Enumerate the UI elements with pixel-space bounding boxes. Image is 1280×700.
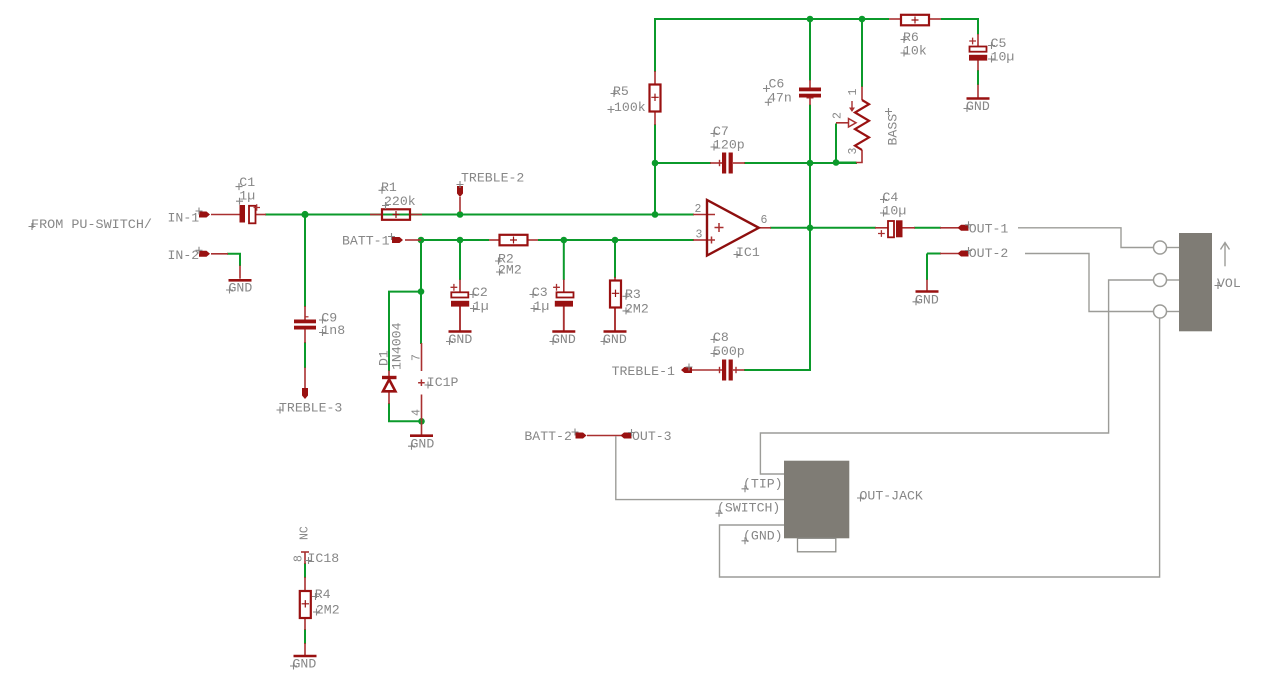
wire pin IC1P 7 [421, 343, 423, 371]
svg-text:2M2: 2M2 [625, 301, 649, 316]
svg-text:10µ: 10µ [883, 204, 907, 219]
ground GND under D1 [410, 434, 433, 437]
wire input node down to C9 [304, 215, 306, 308]
wire BATT-1 red [405, 239, 421, 241]
svg-text:IN-2: IN-2 [168, 248, 200, 263]
svg-text:GND: GND [552, 332, 576, 347]
svg-text:47n: 47n [768, 90, 792, 105]
wire R4 to GND [304, 629, 306, 644]
wire R5 to C7 node [654, 124, 656, 164]
wire IN-2 to GND [227, 254, 240, 266]
svg-text:500p: 500p [713, 344, 745, 359]
resistor R3 [610, 281, 621, 308]
svg-text:C3: C3 [532, 285, 548, 300]
svg-text:C2: C2 [472, 285, 488, 300]
wire C7 node down to opamp pin2 net [654, 163, 656, 216]
ground GND under R4 [294, 655, 317, 658]
wire pin C5 top [977, 34, 979, 47]
node feedback top C6 [807, 16, 814, 23]
net flag IN-2 [199, 251, 210, 257]
wire pin BASS wiper [836, 122, 849, 124]
wire pin IC1 2 [693, 214, 715, 216]
wire pin C9 top [304, 306, 306, 320]
wire to C3 [563, 240, 565, 280]
wire pin D1 bottom [388, 392, 390, 405]
svg-text:R1: R1 [381, 180, 397, 195]
wire OUT-2 stub [927, 253, 941, 255]
ground GND under IN-2 [229, 279, 252, 282]
wire top to BASS pin1 [861, 18, 863, 87]
wire pin R1 left [370, 214, 382, 216]
wire pin C4 right [902, 227, 915, 229]
connector pad VOL 2 [1154, 274, 1167, 287]
potentiometer BASS wiper arrow [849, 119, 857, 128]
svg-text:8: 8 [293, 555, 306, 562]
wire pin C3 top [563, 280, 565, 293]
node opamp output junction [807, 225, 814, 232]
wire top to R5 [654, 18, 656, 72]
wire D1 cathode to GND node [389, 403, 422, 421]
wire pin C8 left [689, 369, 722, 371]
wire pin tick C6 [807, 97, 814, 99]
svg-text:1µ: 1µ [473, 299, 489, 314]
wire pin C1 right [256, 214, 267, 216]
svg-text:220k: 220k [384, 194, 416, 209]
svg-text:(SWITCH): (SWITCH) [717, 501, 780, 516]
svg-text:BASS: BASS [886, 114, 901, 146]
wire pin R2 right [527, 239, 539, 241]
svg-text:TREBLE-2: TREBLE-2 [461, 171, 524, 186]
capacitor C4 [878, 220, 903, 237]
connector pad VOL 1 [1154, 241, 1167, 254]
net flag TREBLE-2 [457, 186, 463, 197]
svg-text:120p: 120p [713, 138, 745, 153]
wire pin IC1 3 [693, 239, 707, 241]
svg-text:OUT-1: OUT-1 [969, 221, 1009, 236]
svg-text:IC1: IC1 [736, 245, 760, 260]
svg-text:R5: R5 [613, 84, 629, 99]
svg-text:2: 2 [832, 112, 845, 119]
wire pin C2 top [459, 280, 461, 293]
wire top feedback horizontal [654, 18, 889, 20]
wire gray OUT-2 to VOL pin 3 [1025, 254, 1153, 312]
wire pin GND IN-2 [239, 266, 241, 279]
wire pin R4 bottom [304, 618, 306, 630]
wire to R3 [614, 240, 616, 278]
svg-text:OUT-2: OUT-2 [969, 246, 1009, 261]
wire C7 to pot node [744, 162, 857, 164]
node C3 junction [561, 237, 568, 244]
capacitor C6 [799, 88, 821, 98]
node D1 branch junction [418, 288, 425, 295]
wire pin R6 right [928, 18, 941, 20]
svg-text:1µ: 1µ [534, 299, 550, 314]
diode D1 [382, 378, 397, 392]
wire pin GND D1 [421, 421, 423, 434]
wire pin R3 gnd [614, 307, 616, 331]
svg-text:10k: 10k [903, 44, 927, 59]
svg-text:FROM PU-SWITCH/: FROM PU-SWITCH/ [31, 217, 152, 232]
op-amp IC1 [707, 200, 759, 256]
wire pin R6 left [889, 18, 901, 20]
wire pin D1 top [388, 371, 390, 378]
wire OUT-2 to GND [926, 254, 928, 281]
wire BASS wiper down [835, 124, 837, 164]
wire pin C9 bottom [304, 329, 306, 344]
svg-text:NC: NC [299, 526, 312, 540]
svg-text:2: 2 [695, 203, 702, 216]
wire gray VOL pin2 stub [1166, 279, 1179, 281]
net flag OUT-2 [958, 251, 969, 257]
wire pin C4 left [875, 227, 888, 229]
svg-text:TREBLE-1: TREBLE-1 [612, 364, 675, 379]
svg-text:2M2: 2M2 [316, 603, 340, 618]
svg-text:(TIP): (TIP) [743, 476, 783, 491]
net flag TREBLE-1 [681, 367, 692, 373]
svg-text:GND: GND [966, 99, 990, 114]
node C2 junction [457, 237, 464, 244]
svg-text:(GND): (GND) [743, 528, 783, 543]
wire pin R2 left [489, 239, 500, 241]
wire pin tick C9 [305, 316, 309, 318]
wire pin tick C8 right [735, 367, 737, 373]
wire to C2 [459, 240, 461, 280]
net flag TREBLE-3 [302, 388, 308, 399]
wire pin IC18 nc cross [301, 551, 309, 553]
node R3 junction [612, 237, 619, 244]
net flag OUT-1 [958, 225, 969, 231]
ground GND under R3 [604, 330, 627, 333]
svg-text:GND: GND [229, 281, 253, 296]
wire D1 branch horizontal [388, 291, 422, 293]
svg-text:4: 4 [411, 409, 424, 416]
wire pin R3 top [614, 277, 616, 281]
node IC1P pin4 GND junction [418, 418, 425, 425]
wire pin BASS 1 [861, 87, 863, 101]
svg-text:6: 6 [761, 214, 768, 227]
wire OUT-2 red [940, 253, 959, 255]
potentiometer VOL arrow [1221, 243, 1230, 267]
ground GND under C3 [552, 330, 575, 333]
wire pin R1 right [410, 214, 422, 216]
node R5/C7 junction [652, 160, 659, 167]
node TREBLE-2 junction [457, 211, 464, 218]
potentiometer BASS adjust arrow [849, 101, 855, 112]
op-amp power IC1P [418, 379, 425, 386]
wire pin C6 top [809, 80, 811, 88]
svg-text:TREBLE-3: TREBLE-3 [279, 401, 342, 416]
capacitor C3 [553, 284, 573, 307]
wire pin C7 right [733, 162, 745, 164]
connector pad VOL 3 [1154, 305, 1167, 318]
wire pin R4 top [304, 577, 306, 591]
svg-text:IC18: IC18 [308, 551, 340, 566]
svg-text:C6: C6 [769, 77, 785, 92]
wire BATT-1 node to R2 [420, 239, 489, 241]
wire C6 bottom through output node to C8 [744, 105, 810, 371]
wire C5 to GND [977, 70, 979, 85]
svg-text:VOL: VOL [1217, 276, 1241, 291]
wire pin IC1 6 [759, 227, 771, 229]
potentiometer VOL body [1179, 233, 1212, 331]
potentiometer BASS [855, 100, 869, 150]
wire pin C3 gnd [563, 307, 565, 331]
wire TREBLE-3 stub [304, 368, 306, 390]
wire pin C5 bottom [977, 60, 979, 71]
resistor R4 [300, 591, 311, 618]
wire gray OUT-1 to VOL pin 1 [1018, 228, 1153, 248]
wire gray VOL pin1 stub [1166, 247, 1179, 249]
svg-text:3: 3 [696, 229, 703, 242]
wire IN-2 red [211, 253, 228, 255]
wire pin C5 gnd [977, 85, 979, 98]
wire pin C8 right [733, 369, 745, 371]
wire opamp output [770, 227, 876, 229]
svg-text:BATT-1: BATT-1 [342, 234, 390, 249]
resistor R5 [650, 85, 661, 112]
capacitor C5 [969, 38, 987, 61]
svg-text:10µ: 10µ [991, 50, 1015, 65]
net flag IN-1 [199, 212, 210, 218]
svg-text:GND: GND [449, 332, 473, 347]
wire pin tick C7 [719, 160, 721, 166]
wire BASS pin3 to node [836, 162, 857, 164]
wire IN-1 to C1 [211, 214, 240, 216]
wire pin IC1P 4 [421, 395, 423, 422]
wire pin C7 left [710, 162, 722, 164]
svg-text:R4: R4 [315, 587, 331, 602]
wire pin C6 bottom [809, 98, 811, 106]
wire BATT node down to IC1P pin7 [420, 240, 422, 344]
wire pin IC18 8 [304, 552, 306, 564]
node input junction C1/C9 [301, 211, 308, 218]
svg-text:C8: C8 [713, 330, 729, 345]
net flag BATT-2 [576, 433, 587, 439]
svg-text:BATT-2: BATT-2 [524, 429, 571, 444]
capacitor C9 [294, 320, 316, 330]
ground GND under C5 [967, 97, 990, 100]
wire C4 to OUT-1 [914, 227, 941, 229]
wire BATT-2 to OUT-3 [587, 435, 623, 437]
svg-text:2M2: 2M2 [498, 263, 522, 278]
svg-text:GND: GND [411, 437, 435, 452]
resistor R6 [901, 15, 929, 25]
svg-text:1n8: 1n8 [321, 323, 345, 338]
net flag BATT-1 [392, 237, 403, 243]
svg-text:GND: GND [915, 292, 939, 307]
wire gray VOL pin3 stub [1166, 311, 1179, 313]
node BATT-1 junction [418, 237, 425, 244]
wire pin R5 bottom [654, 113, 656, 126]
wire TREBLE-2 stub [459, 197, 461, 212]
capacitor C2 [451, 284, 470, 307]
wire pin R5 top [654, 71, 656, 85]
ground GND under OUT-2 [916, 290, 939, 293]
svg-text:GND: GND [603, 332, 627, 347]
wire pin GND R4 [304, 643, 306, 656]
svg-text:7: 7 [411, 354, 424, 361]
svg-text:IN-1: IN-1 [168, 210, 200, 225]
svg-text:OUT-JACK: OUT-JACK [860, 489, 923, 504]
svg-text:100k: 100k [614, 100, 646, 115]
node C6/C7 junction [807, 160, 814, 167]
capacitor C1 [240, 204, 261, 223]
wire C6 top [809, 18, 811, 81]
ground GND under C2 [449, 330, 472, 333]
wire pin C2 gnd [459, 307, 461, 331]
capacitor C7 [722, 153, 733, 174]
wire main input net horizontal [265, 214, 694, 216]
svg-text:OUT-3: OUT-3 [632, 429, 672, 444]
wire C7 node left [655, 162, 711, 164]
wire D1 anode branch down [388, 292, 390, 371]
wire pin BASS 3 [856, 150, 862, 163]
resistor R1 [382, 209, 410, 220]
net flag OUT-3 [621, 433, 632, 439]
svg-text:1: 1 [847, 89, 860, 96]
wire R6 to C5 [941, 19, 978, 35]
connector OUT-JACK sleeve tab [798, 538, 836, 552]
wire gray jack GND loop to VOL pin 3 [720, 318, 1160, 577]
svg-text:IC1P: IC1P [427, 375, 459, 390]
wire pin GND OUT-2 [926, 280, 928, 291]
resistor R2 [500, 235, 528, 246]
node feedback top BASS [859, 16, 866, 23]
node opamp pin2 junction [652, 211, 659, 218]
svg-text:GND: GND [293, 657, 317, 672]
svg-text:1N4004: 1N4004 [390, 322, 405, 370]
wire pin tick C8 left [719, 367, 721, 373]
wire C9 to TREBLE-3 [304, 342, 306, 368]
svg-text:3: 3 [847, 148, 860, 155]
wire OUT-1 red [940, 227, 959, 229]
connector OUT-JACK body [784, 461, 849, 539]
wire R2 to opamp pin3 [538, 239, 694, 241]
wire gray OUT-3 to jack SWITCH [616, 436, 784, 500]
node BASS wiper junction [833, 159, 840, 166]
svg-text:R3: R3 [625, 287, 641, 302]
capacitor C8 [722, 360, 733, 381]
wire gray VOL wiper to jack TIP [760, 280, 1153, 474]
wire IC18 pin8 to R4 [304, 563, 306, 578]
